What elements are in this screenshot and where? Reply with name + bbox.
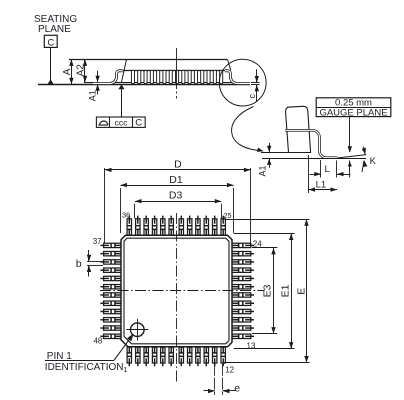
- dimension K with foot angle line: [337, 147, 376, 173]
- svg-text:D: D: [174, 158, 182, 170]
- svg-text:e: e: [234, 382, 240, 394]
- dimension e (lead pitch): [204, 364, 241, 395]
- svg-text:1: 1: [123, 365, 127, 374]
- top view leads pins 24-13 (right column): [232, 243, 254, 338]
- svg-text:PLANE: PLANE: [38, 24, 71, 35]
- top view leads pins 1-12 (bottom row): [127, 347, 225, 366]
- pin number 12: [225, 365, 234, 374]
- gauge detail body blob: [286, 106, 311, 152]
- pin number 1: [123, 365, 127, 374]
- dimension c (lead thickness): [247, 69, 260, 102]
- svg-text:36: 36: [122, 210, 130, 219]
- side view lead profile right (S-bend foot in detail circle): [225, 71, 250, 84]
- svg-text:A1: A1: [88, 90, 98, 101]
- pin number 36: [122, 210, 130, 219]
- svg-text:A: A: [62, 68, 73, 75]
- side view body bottom line: [84, 82, 232, 84]
- dimension A: [62, 59, 74, 84]
- pin number 24: [253, 240, 262, 249]
- svg-text:b: b: [76, 258, 82, 270]
- dimension A2: [75, 59, 87, 82]
- label: SEATING PLANE: [34, 14, 77, 35]
- pin 1 identification label and leader: [45, 334, 134, 373]
- gauge detail seating line: [262, 158, 366, 160]
- svg-text:E: E: [295, 288, 307, 295]
- side view lead profile left (S-bend foot): [93, 71, 123, 84]
- svg-text:K: K: [370, 156, 377, 167]
- dimension L1: [309, 155, 338, 193]
- datum leader line: [50, 47, 52, 79]
- svg-text:A2: A2: [75, 64, 86, 77]
- svg-text:IDENTIFICATION: IDENTIFICATION: [45, 362, 124, 373]
- svg-text:48: 48: [93, 337, 102, 346]
- coplanarity leader with triangle: [118, 84, 124, 117]
- balloon leader arc with arrow: [232, 107, 264, 152]
- svg-text:GAUGE PLANE: GAUGE PLANE: [319, 107, 387, 118]
- dimension E: [224, 219, 310, 362]
- dimension A1 gauge detail: [258, 143, 272, 177]
- pin number 13: [247, 341, 256, 350]
- gauge detail body bottom extension line: [261, 152, 289, 154]
- seating plane line: [38, 84, 250, 86]
- side view package top line: [69, 59, 228, 61]
- svg-text:12: 12: [225, 365, 234, 374]
- dimension D: [105, 158, 251, 246]
- side view body left edge: [122, 59, 127, 82]
- side view lead shoulder line: [122, 70, 227, 72]
- svg-text:L: L: [325, 164, 330, 175]
- svg-text:E3: E3: [262, 284, 274, 297]
- svg-text:37: 37: [93, 237, 102, 246]
- side view vertical centerline: [176, 48, 178, 99]
- dimension E1: [234, 234, 295, 349]
- top view leads pins 37-48 (left column): [100, 243, 121, 338]
- svg-text:L1: L1: [316, 179, 327, 190]
- top view vertical centerline: [176, 213, 178, 383]
- svg-text:E1: E1: [280, 284, 292, 297]
- pin number 25: [223, 211, 231, 220]
- datum C box: [44, 35, 57, 48]
- svg-text:C: C: [135, 118, 142, 129]
- gauge plane label box: [316, 97, 391, 118]
- dimension E3: [252, 248, 277, 334]
- datum triangle on seating plane: [48, 79, 54, 84]
- package body inner outline with pin1 chamfer: [124, 238, 229, 344]
- svg-text:D3: D3: [169, 190, 183, 202]
- dimension L: [310, 160, 351, 178]
- side view leads row (comb of 16 leads): [131, 70, 222, 83]
- svg-text:ccc: ccc: [115, 117, 129, 127]
- dimension D3: [135, 190, 222, 219]
- top view leads pins 36-25 (top row): [127, 216, 225, 236]
- pin number 37: [93, 237, 102, 246]
- package body outer outline: [121, 235, 232, 347]
- detail balloon circle: [219, 59, 266, 106]
- dimension D1: [121, 174, 234, 233]
- dimension A1 side view: [88, 71, 100, 102]
- svg-text:25: 25: [223, 211, 231, 220]
- svg-text:C: C: [47, 37, 54, 48]
- coplanarity control frame: [96, 117, 145, 129]
- pin 1 identification circle: [126, 319, 148, 341]
- svg-text:D1: D1: [169, 174, 183, 186]
- svg-text:13: 13: [247, 341, 256, 350]
- pin number 48: [93, 337, 102, 346]
- dimension b (lead width): [76, 250, 103, 277]
- svg-text:c: c: [247, 93, 257, 98]
- gauge detail lead: [285, 130, 337, 157]
- side view body right edge: [228, 59, 231, 70]
- svg-text:24: 24: [253, 240, 262, 249]
- gauge plane vertical leader: [348, 117, 352, 178]
- svg-text:A1: A1: [258, 165, 268, 176]
- top view horizontal centerline: [100, 290, 265, 292]
